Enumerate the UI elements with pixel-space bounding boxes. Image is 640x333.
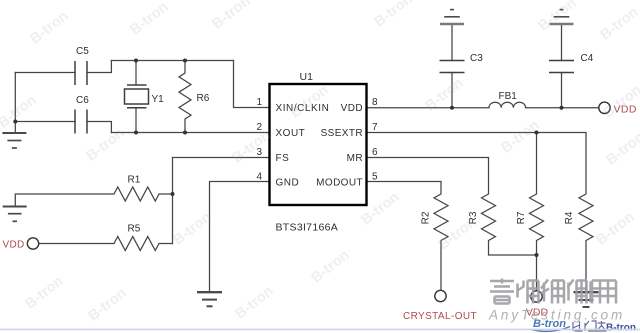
pin number 7 xyxy=(372,122,378,133)
svg-text:VDD: VDD xyxy=(3,240,25,251)
svg-text:8: 8 xyxy=(372,97,378,108)
svg-text:C4: C4 xyxy=(581,53,594,64)
capacitor C3 xyxy=(440,61,465,73)
resistor R4 xyxy=(579,133,593,292)
net label VDD bottom xyxy=(526,307,549,319)
wire C3 top stem xyxy=(451,24,453,61)
pin 6 name MR xyxy=(347,153,363,164)
wire pin6 MR xyxy=(367,157,489,159)
junction pin7 R7 xyxy=(535,131,539,135)
capacitor C4 xyxy=(549,61,574,73)
pin 4 name GND xyxy=(276,178,300,189)
ground (R1 left) xyxy=(3,207,27,222)
label R2 xyxy=(421,211,432,224)
pin number 8 xyxy=(372,97,378,108)
wire top rail xyxy=(111,60,233,62)
svg-text:5: 5 xyxy=(372,172,378,183)
wire C5 right jog xyxy=(87,61,111,73)
ground (R4 bottom) xyxy=(574,292,599,307)
pin number 1 xyxy=(256,97,262,108)
wire pin1 drop xyxy=(234,61,270,108)
pin number 5 xyxy=(372,172,378,183)
junction top rail R6 xyxy=(183,59,187,63)
svg-text:R6: R6 xyxy=(197,93,210,104)
wire R3-R7 bottom link xyxy=(489,254,537,256)
label FB1 xyxy=(499,91,518,102)
wire left rail xyxy=(14,73,16,134)
crystal Y1 xyxy=(125,61,149,133)
svg-text:FS: FS xyxy=(276,153,290,164)
bottom divider line xyxy=(0,329,640,331)
ground (GND pin) xyxy=(197,292,222,306)
svg-text:6: 6 xyxy=(372,147,378,158)
wire FS rail xyxy=(172,158,174,244)
svg-text:B-tron: B-tron xyxy=(606,323,636,333)
pin 1 name XIN/CLKIN xyxy=(276,103,330,114)
capacitor C6 xyxy=(75,110,87,134)
svg-text:BTS3I7166A: BTS3I7166A xyxy=(276,222,339,234)
wire C4 top stem xyxy=(561,24,563,61)
capacitor C5 xyxy=(75,61,87,85)
label BTS3I7166A xyxy=(276,222,339,234)
terminal VDD bottom xyxy=(531,291,542,302)
pin number 4 xyxy=(256,172,262,183)
op-amp U1 body xyxy=(270,84,367,205)
svg-text:R4: R4 xyxy=(564,211,575,224)
label C5 xyxy=(76,46,89,57)
wire R5 left xyxy=(39,243,115,245)
label C4 xyxy=(581,53,594,64)
svg-text:R5: R5 xyxy=(128,224,141,235)
junction pin2 R6 xyxy=(183,131,187,135)
label R6 xyxy=(197,93,210,104)
terminal VDD right xyxy=(599,102,610,113)
net label VDD right xyxy=(614,104,637,116)
junction VDD rail C4 xyxy=(560,106,564,110)
pin number 6 xyxy=(372,147,378,158)
svg-text:VDD: VDD xyxy=(341,103,363,114)
svg-text:7: 7 xyxy=(372,122,378,133)
svg-text:MR: MR xyxy=(347,153,363,164)
label R3 xyxy=(468,211,479,224)
label R5 xyxy=(128,224,141,235)
wire FB1 to VDD terminal xyxy=(526,107,600,109)
AnyTesting.com watermark xyxy=(488,308,625,323)
svg-text:B-tron: B-tron xyxy=(533,318,566,330)
resistor R6 xyxy=(179,61,191,133)
pin 2 name XOUT xyxy=(276,128,306,139)
label U1 xyxy=(300,71,314,83)
wire C6 right jog xyxy=(87,122,111,133)
resistor R2 xyxy=(434,182,448,291)
terminal VDD left xyxy=(27,238,38,249)
net label CRYSTAL-OUT xyxy=(403,311,477,322)
net label VDD left xyxy=(3,240,25,251)
resistor R5 xyxy=(114,237,159,251)
watermark branding bottom right xyxy=(490,279,616,304)
svg-text:R2: R2 xyxy=(421,211,432,224)
pin 7 name SSEXTR xyxy=(321,128,363,139)
resistor R7 xyxy=(530,133,544,292)
ground (C4 top, inverted) xyxy=(550,10,574,24)
junction R7 bottom link xyxy=(535,253,539,257)
svg-text:R7: R7 xyxy=(516,211,527,224)
label R1 xyxy=(128,175,141,186)
resistor R3 xyxy=(482,158,496,256)
junction pin2 Y1 xyxy=(134,131,138,135)
junction FS rail R1 xyxy=(171,192,175,196)
svg-text:CRYSTAL-OUT: CRYSTAL-OUT xyxy=(403,311,477,322)
resistor R1 xyxy=(114,187,159,201)
svg-text:SSEXTR: SSEXTR xyxy=(321,128,363,139)
brand text red + blue xyxy=(573,321,636,333)
ground (left rail) xyxy=(2,133,26,148)
label R4 xyxy=(564,211,575,224)
pin 5 name MODOUT xyxy=(316,178,363,189)
svg-text:MODOUT: MODOUT xyxy=(316,178,363,189)
label R7 xyxy=(516,211,527,224)
svg-text:XOUT: XOUT xyxy=(276,128,306,139)
pin 8 name VDD xyxy=(341,103,363,114)
svg-text:C3: C3 xyxy=(470,53,483,64)
wire pin5 MODOUT xyxy=(367,181,442,183)
svg-text:1: 1 xyxy=(256,97,262,108)
wire pin8 VDD rail xyxy=(367,107,490,109)
junction top rail Y1 xyxy=(134,59,138,63)
label Y1 xyxy=(152,94,165,105)
label C3 xyxy=(470,53,483,64)
wire pin4 GND to ground xyxy=(210,182,270,292)
junction VDD rail C3 xyxy=(450,106,454,110)
svg-text:GND: GND xyxy=(276,178,300,189)
wire C4 bottom stem xyxy=(561,73,563,108)
junction left rail C6 xyxy=(13,120,17,124)
svg-text:4: 4 xyxy=(256,172,262,183)
B-tron blue logo xyxy=(531,318,570,331)
wire C6 left xyxy=(15,121,75,123)
pin 3 name FS xyxy=(276,153,290,164)
svg-text:C5: C5 xyxy=(76,46,89,57)
svg-text:R1: R1 xyxy=(128,175,141,186)
ferrite bead FB1 xyxy=(489,102,526,108)
svg-text:FB1: FB1 xyxy=(499,91,518,102)
wire pin2 XOUT xyxy=(111,132,269,134)
label C6 xyxy=(76,95,89,106)
pin number 2 xyxy=(256,122,262,133)
wire R5 right xyxy=(159,243,173,245)
wire pin7 SSEXTR xyxy=(367,132,587,134)
wire C3 bottom stem xyxy=(451,73,453,108)
terminal CRYSTAL-OUT xyxy=(435,290,446,301)
pin number 3 xyxy=(256,147,262,158)
wire pin3 FS xyxy=(173,157,270,159)
svg-text:Y1: Y1 xyxy=(152,94,165,105)
wire R1 left to ground xyxy=(15,194,114,207)
wire R1 right xyxy=(159,193,173,195)
ground (C3 top, inverted) xyxy=(440,10,464,24)
wire C5 left xyxy=(15,72,75,74)
svg-text:C6: C6 xyxy=(76,95,89,106)
svg-text:U1: U1 xyxy=(300,71,314,83)
